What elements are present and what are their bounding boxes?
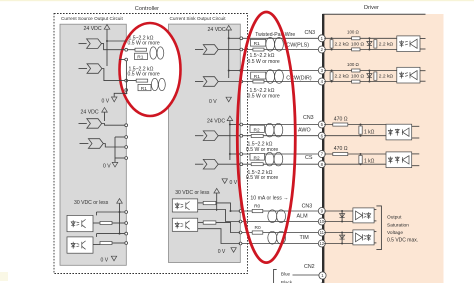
- svg-text:Current Sink Output Circuit: Current Sink Output Circuit: [170, 16, 227, 21]
- svg-text:100 Ω: 100 Ω: [351, 41, 365, 47]
- svg-text:TIM: TIM: [300, 235, 310, 241]
- svg-text:24 VDC: 24 VDC: [207, 118, 225, 124]
- svg-text:0 V: 0 V: [209, 99, 217, 105]
- svg-text:R2: R2: [254, 127, 260, 133]
- svg-text:24 VDC: 24 VDC: [81, 109, 99, 115]
- svg-text:R1: R1: [137, 55, 143, 61]
- svg-text:100 Ω: 100 Ω: [347, 62, 360, 67]
- svg-text:2.2 kΩ: 2.2 kΩ: [335, 41, 350, 47]
- svg-text:1 kΩ: 1 kΩ: [364, 129, 375, 135]
- svg-text:CN3: CN3: [303, 115, 314, 121]
- svg-text:1 kΩ: 1 kΩ: [364, 159, 375, 165]
- svg-text:CN3: CN3: [302, 203, 313, 209]
- svg-text:2.2 kΩ: 2.2 kΩ: [379, 74, 394, 80]
- svg-text:CN2: CN2: [304, 264, 315, 270]
- svg-text:Output: Output: [387, 215, 402, 221]
- svg-text:0 V: 0 V: [101, 257, 109, 263]
- svg-text:Current Source Output Circuit: Current Source Output Circuit: [61, 16, 123, 21]
- svg-text:470 Ω: 470 Ω: [334, 116, 348, 122]
- svg-text:Blue: Blue: [281, 272, 291, 277]
- svg-text:R1: R1: [141, 86, 147, 92]
- svg-text:ALM: ALM: [297, 214, 309, 220]
- svg-text:0.5 W or more: 0.5 W or more: [248, 93, 280, 99]
- svg-text:0.5 W or more: 0.5 W or more: [128, 41, 160, 47]
- svg-text:10 mA or less →: 10 mA or less →: [250, 195, 288, 201]
- svg-text:R1: R1: [254, 74, 260, 80]
- svg-text:30 VDC or less: 30 VDC or less: [74, 200, 109, 206]
- svg-text:CS: CS: [305, 155, 313, 161]
- svg-text:100 Ω: 100 Ω: [351, 74, 365, 80]
- svg-text:R2: R2: [254, 155, 260, 161]
- svg-text:R0: R0: [254, 204, 260, 210]
- svg-text:0 V: 0 V: [102, 99, 110, 105]
- svg-text:CCW(DIR): CCW(DIR): [286, 75, 312, 81]
- svg-text:Driver: Driver: [364, 5, 379, 11]
- svg-text:470 Ω: 470 Ω: [334, 146, 348, 152]
- svg-text:R1: R1: [254, 41, 260, 47]
- svg-text:30 VDC or less: 30 VDC or less: [175, 190, 210, 196]
- svg-text:0.5 W or more: 0.5 W or more: [248, 59, 280, 65]
- svg-text:CW(PLS): CW(PLS): [286, 43, 309, 49]
- svg-text:24 VDC: 24 VDC: [208, 27, 226, 33]
- svg-text:10: 10: [319, 219, 324, 224]
- svg-text:Controller: Controller: [135, 6, 159, 12]
- svg-text:24 VDC: 24 VDC: [84, 26, 102, 32]
- svg-text:0.5 W or more: 0.5 W or more: [128, 72, 160, 78]
- svg-text:11: 11: [320, 230, 325, 235]
- svg-text:Twisted-Pair Wire: Twisted-Pair Wire: [255, 32, 295, 38]
- svg-text:12: 12: [319, 241, 324, 246]
- svg-text:2.2 kΩ: 2.2 kΩ: [379, 41, 394, 47]
- svg-text:100 Ω: 100 Ω: [347, 30, 360, 35]
- svg-text:Saturation: Saturation: [387, 223, 409, 229]
- svg-text:R0: R0: [255, 225, 261, 231]
- svg-text:AWO: AWO: [298, 128, 311, 134]
- svg-text:0 V: 0 V: [230, 180, 238, 186]
- svg-text:Voltage: Voltage: [387, 230, 403, 236]
- svg-text:0.5 W or more: 0.5 W or more: [246, 175, 278, 181]
- svg-text:2.2 kΩ: 2.2 kΩ: [335, 74, 350, 80]
- svg-text:0 V: 0 V: [103, 163, 111, 169]
- svg-text:0.5 W or more: 0.5 W or more: [246, 147, 278, 153]
- svg-text:0.5 VDC max.: 0.5 VDC max.: [387, 237, 418, 243]
- svg-text:0 V: 0 V: [218, 249, 226, 255]
- svg-text:CN3: CN3: [305, 30, 316, 36]
